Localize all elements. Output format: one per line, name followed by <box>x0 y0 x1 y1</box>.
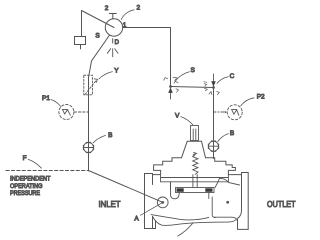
svg-text:PRESSURE: PRESSURE <box>10 190 40 197</box>
flow arrow down into right junction <box>213 74 215 82</box>
gauge P1 glyph <box>62 109 70 115</box>
left body ear <box>153 175 171 190</box>
diaphragm seal left (black) <box>177 188 184 192</box>
diaphragm bar <box>176 188 215 193</box>
port D stub <box>112 39 114 43</box>
outlet passage bottom right <box>214 217 238 220</box>
svg-text:V: V <box>175 112 180 119</box>
wire: port 1 horizontal line <box>123 27 171 29</box>
bonnet underside line <box>161 177 228 179</box>
wire: supply diagonal to port A <box>89 171 163 203</box>
leader for P2 <box>241 98 254 106</box>
svg-text:S: S <box>95 33 100 40</box>
gauge P2 glyph <box>232 110 239 116</box>
leader for reference 2 <box>121 10 134 20</box>
diaphragm seal right (black) <box>205 188 212 192</box>
gauge P1 dashed connector <box>74 111 88 113</box>
svg-text:F: F <box>23 155 27 162</box>
Y dashed box <box>84 75 93 95</box>
svg-text:OPERATING: OPERATING <box>10 183 43 190</box>
valve adjust fitting V (striped) <box>191 126 199 141</box>
wire: stem line from apex into circle center <box>82 11 115 28</box>
gauge P2 dashed connector <box>214 111 225 113</box>
right bracket curve <box>220 178 240 185</box>
box component (weight) <box>75 37 86 45</box>
gauge P1 dashed circle <box>59 105 74 120</box>
junction left (node) with dot <box>169 85 172 88</box>
wire: port S diagonal down to left line <box>89 35 110 171</box>
small arrowheads around right junction <box>204 82 219 95</box>
Y dashed diagonal arrow <box>85 81 96 94</box>
left flange inner edge top <box>152 174 154 185</box>
svg-text:D: D <box>115 40 120 46</box>
spring stem <box>193 175 197 188</box>
bonnet ledges right <box>206 158 236 175</box>
body underside contour <box>153 216 236 225</box>
wire: stub below box <box>80 45 82 49</box>
leader for S mid <box>174 72 190 83</box>
vent symbol below D <box>107 49 118 57</box>
svg-text:S: S <box>191 67 196 74</box>
port A circle with dot <box>157 197 168 208</box>
valve bonnet neck <box>182 141 206 157</box>
junction right (node) with dot <box>212 86 215 89</box>
right flange <box>238 173 249 230</box>
svg-text:2: 2 <box>136 5 140 12</box>
svg-text:2: 2 <box>105 5 109 12</box>
diaphragm left J-hook <box>171 189 180 199</box>
bonnet ledges left <box>154 158 182 175</box>
left flange inner edge bottom <box>152 216 154 228</box>
svg-text:INLET: INLET <box>99 199 122 209</box>
dashed line F <box>6 170 89 172</box>
svg-text:B: B <box>230 130 234 137</box>
wall from bar right to bracket <box>215 178 220 187</box>
center divider / seat line <box>212 197 215 218</box>
svg-text:C: C <box>230 73 235 80</box>
svg-text:B: B <box>108 132 112 139</box>
leader for Y <box>99 72 113 79</box>
leader for B right <box>218 134 229 142</box>
bottom leader curve <box>178 223 193 236</box>
leader for V <box>181 117 193 125</box>
gauge P2 dashed circle <box>227 105 242 120</box>
wire: vertical drop from apex to box <box>81 11 83 37</box>
port 2 stub with T-cap <box>109 14 116 19</box>
flow arrow up into left junction <box>170 93 172 99</box>
pilot 3-way valve circle <box>105 19 122 36</box>
wire: right down from port1 corner <box>170 28 172 87</box>
svg-text:A: A <box>134 215 139 222</box>
leader for P1 <box>51 100 60 107</box>
diaphragm tray rim <box>161 175 229 182</box>
leader for C <box>217 77 228 84</box>
leader for F <box>28 159 41 168</box>
dot in outlet chamber <box>226 201 229 204</box>
valve stem below diaphragm <box>208 193 210 199</box>
leader for A <box>141 203 163 216</box>
leader for B left <box>93 135 105 142</box>
svg-text:1: 1 <box>123 22 127 29</box>
svg-text:OUTLET: OUTLET <box>267 199 296 209</box>
svg-text:P2: P2 <box>257 93 265 100</box>
right ledge to flange <box>228 174 241 176</box>
wire: right pilot line down <box>213 88 215 159</box>
left flange <box>145 174 156 229</box>
orifice B right (cross symbol) <box>208 141 218 151</box>
inlet passage bottom contour <box>151 215 209 220</box>
small arrowheads around left junction <box>164 77 179 92</box>
spring <box>193 153 198 175</box>
wire: tee horizontal line <box>171 87 214 88</box>
svg-text:P1: P1 <box>42 95 50 102</box>
orifice B left (cross symbol) <box>83 142 93 152</box>
svg-text:Y: Y <box>114 68 119 75</box>
svg-text:INDEPENDENT: INDEPENDENT <box>10 176 51 183</box>
